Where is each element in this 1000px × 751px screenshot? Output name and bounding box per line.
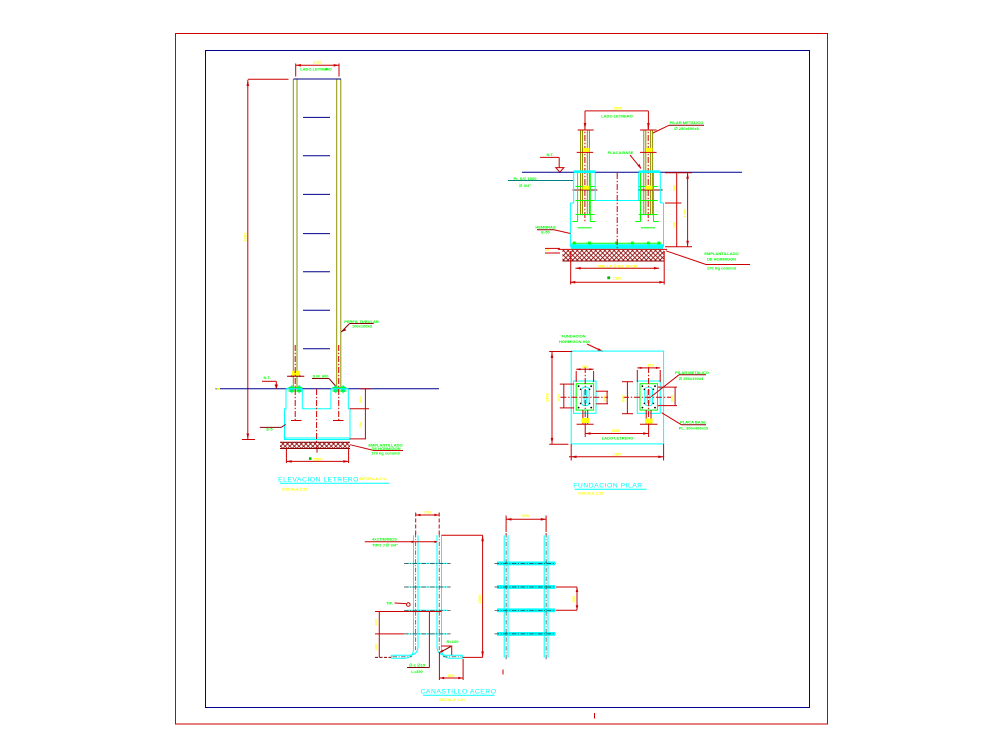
svg-text:150: 150 [448, 673, 455, 678]
svg-text:ELEVACION LETRERO: ELEVACION LETRERO [278, 477, 359, 484]
svg-text:1100: 1100 [614, 106, 623, 111]
svg-text:1200: 1200 [682, 208, 687, 218]
svg-text:10: 10 [545, 247, 550, 252]
svg-text:100x100x3: 100x100x3 [352, 323, 373, 328]
svg-text:ESCALA 1:50: ESCALA 1:50 [282, 487, 308, 492]
svg-text:6000: 6000 [243, 232, 248, 242]
svg-text:4x2 PERNOS: 4x2 PERNOS [372, 536, 397, 541]
svg-text:PLACA BASE: PLACA BASE [680, 420, 706, 425]
svg-text:∅ 250x190x4: ∅ 250x190x4 [679, 376, 704, 381]
svg-text:250: 250 [424, 510, 431, 515]
svg-text:PLACA BASE: PLACA BASE [608, 150, 634, 155]
svg-text:500: 500 [358, 395, 363, 402]
svg-text:ALTURA 6.0 m.: ALTURA 6.0 m. [359, 476, 387, 481]
svg-text:∅ 250x190x5: ∅ 250x190x5 [674, 126, 699, 131]
svg-text:HORMIGON H20: HORMIGON H20 [559, 339, 591, 344]
svg-text:FUNDACION: FUNDACION [562, 334, 586, 339]
svg-text:PL. 300x400x19: PL. 300x400x19 [679, 426, 709, 431]
svg-text:LADO LETRERO: LADO LETRERO [602, 435, 634, 440]
svg-text:400: 400 [582, 364, 589, 369]
svg-text:R=100: R=100 [447, 639, 460, 644]
svg-text:170 kg cem/m3: 170 kg cem/m3 [371, 451, 400, 456]
svg-text:500: 500 [669, 394, 674, 401]
svg-text:1100: 1100 [313, 60, 322, 65]
svg-text:1800: 1800 [613, 451, 623, 456]
svg-text:ESCALA 1:20: ESCALA 1:20 [439, 697, 465, 702]
svg-text:1500: 1500 [477, 594, 482, 604]
svg-text:550: 550 [522, 513, 529, 518]
svg-text:400: 400 [647, 363, 654, 368]
svg-text:250: 250 [602, 394, 607, 401]
svg-text:L=350: L=350 [411, 669, 423, 674]
svg-text:PILAR METALICO: PILAR METALICO [675, 370, 709, 375]
svg-text:300: 300 [571, 595, 576, 602]
svg-text:N.T.: N.T. [546, 152, 553, 157]
svg-text:LADO LETRERO: LADO LETRERO [601, 114, 633, 119]
svg-text:1500: 1500 [545, 392, 550, 402]
svg-text:∅-1 ∅15: ∅-1 ∅15 [409, 662, 426, 667]
svg-text:FUNDACION PILAR: FUNDACION PILAR [573, 483, 642, 490]
svg-text:500: 500 [672, 184, 677, 191]
svg-text:∅ 3/4": ∅ 3/4" [519, 183, 531, 188]
svg-text:PILAR METALICO: PILAR METALICO [670, 120, 704, 125]
svg-text:CANASTILLO ACERO: CANASTILLO ACERO [421, 689, 497, 696]
svg-text:300: 300 [374, 643, 379, 650]
svg-text:1800: 1800 [613, 276, 623, 281]
svg-text:EMPLANTILLADO: EMPLANTILLADO [704, 251, 738, 256]
svg-text:S.M. 600: S.M. 600 [312, 374, 329, 379]
svg-text:700: 700 [672, 221, 677, 228]
svg-text:Pr. S/C 1000: Pr. S/C 1000 [514, 176, 538, 181]
svg-text:1100: 1100 [612, 428, 621, 433]
svg-text:ESCALA 1:50: ESCALA 1:50 [578, 491, 604, 496]
svg-text:TIPO J ∅ 3/4": TIPO J ∅ 3/4" [372, 542, 398, 547]
svg-text:1500: 1500 [314, 457, 324, 462]
svg-text:700: 700 [358, 421, 363, 428]
svg-text:DE HORMIGON: DE HORMIGON [707, 257, 736, 262]
svg-text:300: 300 [374, 618, 379, 625]
svg-text:600: 600 [556, 393, 561, 400]
svg-text:N.T.: N.T. [263, 375, 270, 380]
svg-text:TIP.: TIP. [386, 601, 393, 606]
svg-text:600: 600 [621, 394, 626, 401]
svg-text:170 Kg cem/m3: 170 Kg cem/m3 [707, 266, 737, 271]
